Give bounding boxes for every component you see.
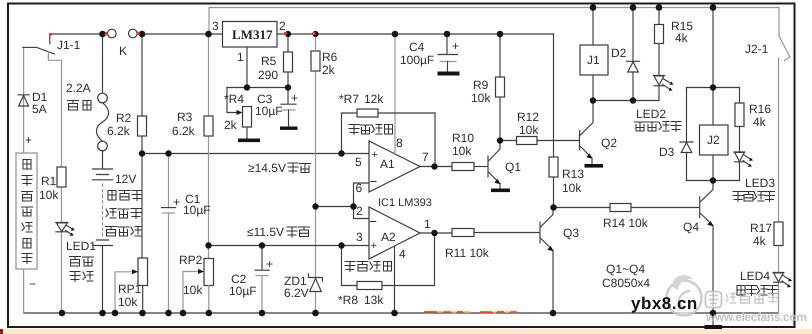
solar panel box 硅太阳电池组件 [16,153,37,269]
svg-text:4: 4 [399,247,406,261]
IC LM317 [223,22,278,48]
svg-text:+: + [25,133,32,147]
svg-text:*R7: *R7 [339,92,359,106]
node dots on main rail [99,31,106,38]
svg-text:Q3: Q3 [563,226,579,240]
switch J2-1 [779,8,790,61]
svg-text:2: 2 [356,204,363,218]
svg-text:8: 8 [396,136,403,150]
svg-text:13k: 13k [364,293,384,307]
resistor R15 [658,8,660,76]
svg-text:10k: 10k [562,181,582,195]
resistor R13 [549,157,558,177]
svg-text:10µF: 10µF [255,104,283,118]
svg-text:+: + [452,39,459,53]
wire: J2 node feed [712,8,714,88]
svg-text:RP2: RP2 [179,253,203,267]
svg-text:R1: R1 [41,174,57,188]
wire: gray top bypass rail y=7.5 with riser at x=209 [209,8,779,35]
svg-text:100µF: 100µF [400,53,434,67]
capacitor C4 [446,34,448,54]
watermark elecfans logo + 电子发烧友 [705,292,807,325]
svg-text:IC1 LM393: IC1 LM393 [378,197,432,209]
svg-text:*R4: *R4 [224,92,244,106]
wire: right branch down [778,58,780,313]
svg-text:7: 7 [422,150,429,164]
svg-text:10µF: 10µF [183,203,211,217]
switch J1-1 [23,34,55,54]
svg-text:10k: 10k [183,283,203,297]
wire: Q4 collector node [687,180,740,182]
diode D1 [18,95,29,106]
LED LED4 [773,273,784,283]
resistor R16 [739,88,741,153]
potentiometer RP2 [204,259,214,286]
svg-text:10k: 10k [471,91,491,105]
resistor R14 [554,207,700,209]
wire: R3 chain (gray) [208,34,210,259]
svg-text:A2: A2 [381,230,396,244]
svg-text:Q1~Q4: Q1~Q4 [606,262,645,276]
svg-text:+: + [371,240,377,252]
svg-text:2k: 2k [224,118,238,132]
wire: bottom ground bus [24,312,779,314]
wire: rail corner down to R13 [553,34,555,157]
svg-text:J1-1: J1-1 [57,38,81,52]
svg-text:6.2k: 6.2k [107,124,131,138]
wire: top main rail y=34 [50,33,554,35]
svg-text:J2: J2 [707,133,720,147]
resistor R17 [774,222,783,246]
svg-text:R10: R10 [452,131,474,145]
svg-text:R16: R16 [749,102,771,116]
bottom cream strip [0,329,812,334]
svg-text:R11 10k: R11 10k [445,246,490,260]
op-amp A1 [369,141,420,192]
node dots on bypass rail [590,4,597,11]
battery 12V [93,169,113,246]
capacitor C3 [287,88,289,104]
svg-text:K: K [119,44,127,58]
watermark swirl logo [667,275,702,315]
wire: fuse to battery [102,151,104,169]
resistor R7 12k [357,109,378,117]
resistor R9 [499,34,501,141]
svg-text:12k: 12k [364,92,384,106]
resistor R2 [138,116,147,136]
svg-text:+: + [173,195,180,209]
svg-text:10k: 10k [452,144,472,158]
ground [238,139,260,143]
wire: overcharge sense wire to A1 pin5 [142,153,369,155]
ground bar below bus at Q4 emitter [712,313,714,326]
svg-text:RP1: RP1 [118,282,142,296]
svg-text:3: 3 [212,19,219,33]
svg-text:10k: 10k [519,123,539,137]
bottom-left dark red mark [0,329,3,334]
wire: R4 to ground [246,127,248,139]
svg-text:10k: 10k [118,295,138,309]
svg-text:Q1: Q1 [505,160,521,174]
wire: pin4 ground line [394,247,396,314]
potentiometer R4 [243,107,252,128]
wire: R8 feedback loop [342,233,435,286]
svg-text:ybx8.cn: ybx8.cn [631,294,698,313]
svg-text:D3: D3 [659,145,675,159]
svg-text:1: 1 [424,217,431,231]
wire: overdischarge sense wire to A2 pin3 [209,245,370,247]
svg-text:10k: 10k [39,188,59,202]
resistor R1 [57,167,66,187]
potentiometer RP1 [138,258,148,286]
LED LED1 [56,223,68,232]
node dots on ground bus [59,310,66,317]
wire: A1 output [420,166,452,168]
svg-text:R5: R5 [261,54,277,68]
op-amp A2 [369,207,420,259]
label 过充比较 [349,125,393,135]
svg-text:6.2V: 6.2V [284,286,309,300]
svg-text:3: 3 [356,230,363,244]
svg-text:C8050x4: C8050x4 [602,276,650,290]
svg-text:D2: D2 [611,46,627,60]
svg-text:2: 2 [279,19,286,33]
wire: R6-ZD1 chain (gray) [315,34,317,313]
svg-text:A1: A1 [380,157,395,171]
capacitor C2 [261,246,263,270]
capacitor C1 [168,154,170,208]
wire: R4 wiper loop [227,88,237,113]
wire: tap from blade to R1 chain [48,52,61,60]
wire: R1/LED1 chain vertical [61,60,63,313]
svg-text:LM317: LM317 [232,27,273,42]
wire: K left dot down to fuse [102,34,104,93]
svg-text:≥14.5V: ≥14.5V [248,161,286,175]
svg-text:R2: R2 [116,111,132,125]
svg-text:12V: 12V [115,172,136,186]
wire: reference to comparator inputs [316,206,354,208]
wire: R2 chain [141,34,143,258]
svg-text:R13: R13 [562,167,584,181]
LED LED2 [654,76,665,86]
red artifact marks [49,32,316,36]
svg-text:6.2k: 6.2k [172,124,196,138]
diode D2 [632,8,634,101]
fuse 2.2A 保险 [98,93,108,103]
wire: pin1 down [246,47,248,88]
svg-text:4k: 4k [675,31,689,45]
resistor R6 [311,51,320,71]
svg-text:2k: 2k [322,63,336,77]
label 过放比较 [345,262,392,272]
wire: pin6-pin2 bracket [354,183,370,219]
svg-text:4k: 4k [753,234,767,248]
svg-text:5: 5 [355,155,362,169]
resistor R3 [204,116,213,136]
relay contact K [108,29,117,38]
transistor Q1 [487,156,489,177]
wire: panel minus to bus [23,269,25,313]
relay coil J2 [712,88,714,181]
svg-text:R12: R12 [517,110,539,124]
svg-text:R6: R6 [322,50,338,64]
resistor R12 [500,140,579,142]
svg-text:Q4: Q4 [683,220,699,234]
LED LED3 [734,152,745,162]
svg-text:4k: 4k [753,115,767,129]
svg-text:5A: 5A [32,102,47,116]
svg-text:R14 10k: R14 10k [603,216,649,230]
svg-text:*R8: *R8 [338,293,358,307]
svg-text:www.elecfans.com: www.elecfans.com [705,310,807,324]
red watermark dashes on bus [424,311,517,313]
svg-text:R17: R17 [750,221,772,235]
svg-text:LED4: LED4 [740,269,770,283]
svg-text:J2-1: J2-1 [745,42,769,56]
node dots mid circuit [244,84,250,90]
svg-text:J1: J1 [587,53,600,67]
resistor R5 [287,34,289,88]
svg-text:1: 1 [237,50,244,64]
diode D3 [686,88,688,181]
wire: adj node [227,87,288,89]
svg-text:−: − [29,277,36,291]
svg-text:C4: C4 [409,40,425,54]
wire: J1/D2 coil node [593,100,659,102]
svg-text:R9: R9 [473,78,489,92]
wire: R7 feedback loop [342,113,436,167]
transistor Q4 [699,197,701,218]
wire: panel plus up to switch pole [23,47,25,153]
svg-text:Q2: Q2 [601,136,617,150]
svg-text:+: + [372,149,378,161]
wire: pin8 supply [394,34,396,155]
svg-text:LED2: LED2 [636,107,666,121]
svg-text:+: + [291,91,298,105]
wire: A2 output [420,232,452,234]
zener ZD1 [309,274,323,292]
resistor R11 [452,229,474,237]
svg-text:+: + [266,257,273,271]
resistor R8 13k [357,282,382,290]
svg-text:LED1: LED1 [66,239,96,253]
resistor R10 [452,163,474,171]
svg-text:≤11.5V: ≤11.5V [247,225,284,239]
transistor Q2 [579,131,581,151]
svg-text:2.2A: 2.2A [66,81,91,95]
svg-text:290: 290 [258,68,278,82]
transistor Q3 [539,222,541,243]
relay coil J1 [592,8,594,101]
svg-text:LED3: LED3 [745,176,775,190]
svg-text:10µF: 10µF [229,284,257,298]
svg-text:R3: R3 [177,110,193,124]
